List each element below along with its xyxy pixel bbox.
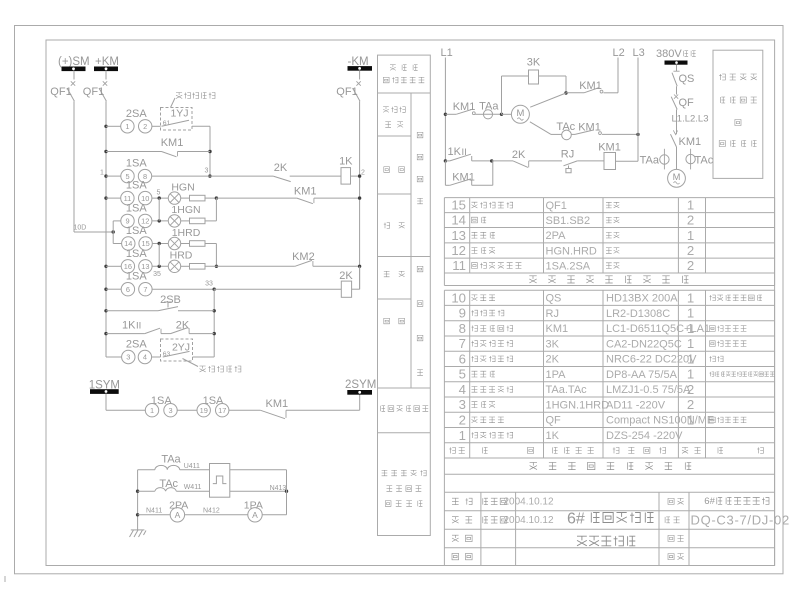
svg-text:5: 5 bbox=[459, 367, 466, 382]
svg-text:9: 9 bbox=[459, 306, 466, 321]
svg-text:2: 2 bbox=[143, 122, 147, 131]
resistor HRD series bbox=[181, 265, 190, 267]
wire 1PA to right rail bbox=[262, 514, 286, 516]
motor M feeder bbox=[668, 169, 686, 187]
svg-text:2004.10.12: 2004.10.12 bbox=[504, 497, 554, 508]
table upper equipment grid bbox=[444, 197, 774, 199]
bus +KM bar bbox=[95, 67, 118, 71]
wire 1HGN loop up to row D bbox=[205, 220, 216, 222]
strip cell closing circuit vertical bbox=[417, 132, 423, 138]
wire between 1SA pairs bbox=[177, 409, 197, 411]
svg-text:2004.10.12: 2004.10.12 bbox=[504, 515, 554, 526]
wire aux mini rail bbox=[213, 289, 215, 357]
wire row H left bbox=[106, 288, 121, 290]
svg-text:L1: L1 bbox=[441, 47, 453, 59]
svg-text:1K: 1K bbox=[546, 430, 560, 442]
svg-text:TAa: TAa bbox=[161, 453, 181, 465]
wire KM2 to right rail bbox=[313, 265, 360, 267]
contact KM1 feeder bbox=[671, 134, 677, 147]
node rail row C bbox=[104, 174, 107, 177]
wire row E from bracket bbox=[113, 220, 121, 222]
node 5 bbox=[158, 196, 161, 199]
wire to lamp 1HRD bbox=[152, 243, 168, 245]
svg-text:6: 6 bbox=[459, 352, 466, 367]
inner drawing border frame bbox=[46, 40, 775, 566]
title block grid bbox=[444, 491, 774, 493]
svg-text:1SA: 1SA bbox=[126, 180, 147, 192]
bus -KM bar bbox=[348, 67, 372, 71]
wire feeder L1L2L3 bbox=[676, 110, 678, 135]
wire to KM2 contact bbox=[205, 265, 295, 267]
svg-text:KM1: KM1 bbox=[578, 121, 601, 133]
svg-text:16: 16 bbox=[124, 262, 132, 271]
svg-text:2PA: 2PA bbox=[546, 230, 567, 242]
wire lamp pair vertical F-G bbox=[158, 244, 160, 267]
svg-text:DZS-254 -220V: DZS-254 -220V bbox=[606, 430, 683, 442]
wire row U411 bbox=[138, 469, 155, 471]
wire transducer out U-phase bbox=[230, 469, 287, 471]
wire to motor M bbox=[502, 113, 512, 115]
svg-text:2SYM: 2SYM bbox=[345, 379, 376, 391]
svg-text:II: II bbox=[136, 321, 141, 332]
node lamp loop D bbox=[215, 196, 218, 199]
wire 1HRD loop down to row G bbox=[205, 243, 216, 245]
wire to node 33 bbox=[152, 288, 214, 290]
svg-text:NRC6-22 DC220V: NRC6-22 DC220V bbox=[606, 354, 697, 366]
svg-text:6#: 6# bbox=[704, 496, 715, 507]
wire node 33 to 2K coil bbox=[214, 288, 341, 290]
svg-text:17: 17 bbox=[218, 406, 226, 415]
svg-text:L2: L2 bbox=[613, 47, 625, 59]
svg-text:1SA: 1SA bbox=[126, 248, 147, 260]
wire L3 vertical bbox=[637, 58, 639, 162]
svg-text:3: 3 bbox=[126, 353, 130, 362]
svg-text:1: 1 bbox=[150, 406, 154, 415]
svg-text:2: 2 bbox=[687, 243, 694, 258]
node CT rail TAc bbox=[136, 490, 139, 493]
wire lamp bracket vertical bbox=[112, 221, 114, 244]
svg-text:6#: 6# bbox=[567, 511, 585, 528]
title block review row bbox=[452, 535, 459, 541]
node L3 junction bbox=[636, 133, 639, 136]
svg-text:1: 1 bbox=[687, 228, 694, 243]
node rail row B bbox=[104, 150, 107, 153]
svg-text:N411: N411 bbox=[146, 508, 162, 515]
wire 1SA-8 to node 3 bbox=[151, 175, 210, 177]
svg-text:2: 2 bbox=[361, 169, 365, 176]
wire L1 vertical bbox=[444, 58, 446, 161]
wire 2YJ to mini rail bbox=[193, 356, 215, 358]
wire (+)SM rail down to 10D branch bbox=[73, 101, 75, 232]
wire resistor to loop node bbox=[205, 197, 216, 199]
breaker QF1 on -KM rail bbox=[359, 70, 361, 79]
svg-text:N413: N413 bbox=[270, 485, 287, 492]
svg-text:1: 1 bbox=[459, 428, 466, 443]
svg-text:1PA: 1PA bbox=[546, 369, 567, 381]
svg-text:2K: 2K bbox=[339, 270, 353, 282]
strip cell red lamp bbox=[384, 271, 390, 277]
svg-text:13: 13 bbox=[141, 262, 149, 271]
function strip frame bbox=[378, 55, 431, 535]
svg-text:TAc: TAc bbox=[695, 154, 714, 166]
svg-text:19: 19 bbox=[200, 406, 208, 415]
wire TAc row bbox=[551, 133, 562, 135]
strip cell accident sound circuit bbox=[381, 406, 386, 412]
wire motor lower diagonal bbox=[530, 122, 551, 135]
resistor 1HRD series bbox=[181, 243, 190, 245]
feeder arrow bbox=[673, 130, 677, 134]
svg-text:8: 8 bbox=[459, 321, 466, 336]
wire motor branch row bbox=[445, 113, 456, 115]
breaker QF1 on +KM rail bbox=[105, 71, 107, 80]
svg-text:1: 1 bbox=[687, 367, 694, 382]
node junction 10D to lamp bracket bbox=[112, 230, 115, 233]
svg-text:1: 1 bbox=[125, 122, 129, 131]
svg-text:1: 1 bbox=[687, 290, 694, 305]
label high oil pressure contact with leader bbox=[183, 359, 199, 367]
node motor upper diagonal bbox=[564, 91, 567, 94]
wire row D left bbox=[106, 197, 121, 199]
svg-text:SB1.SB2: SB1.SB2 bbox=[546, 215, 591, 227]
svg-text:QS: QS bbox=[546, 293, 562, 305]
svg-text:QF1: QF1 bbox=[336, 86, 357, 98]
strip cell CT secondary circuit bbox=[382, 470, 388, 476]
svg-text:1SA: 1SA bbox=[126, 271, 147, 283]
node rail row G bbox=[104, 265, 107, 268]
svg-text:A: A bbox=[252, 510, 258, 520]
svg-text:RJ: RJ bbox=[546, 308, 559, 320]
svg-text:KM1: KM1 bbox=[294, 186, 317, 198]
node rail row H bbox=[104, 288, 107, 291]
svg-text:QF1: QF1 bbox=[546, 200, 567, 212]
breaker QF1 on (+)SM rail bbox=[73, 71, 75, 80]
svg-text:3: 3 bbox=[205, 168, 209, 175]
svg-text:DQ-C3-7/DJ-02: DQ-C3-7/DJ-02 bbox=[691, 512, 790, 527]
title block design row bbox=[452, 498, 459, 504]
svg-text:+KM: +KM bbox=[95, 56, 119, 68]
svg-text:U411: U411 bbox=[184, 463, 200, 470]
node CT rail meters bbox=[136, 513, 139, 516]
svg-text:Compact NS100N/ME: Compact NS100N/ME bbox=[606, 415, 714, 427]
wire to node 5 bbox=[152, 197, 169, 199]
title block check row bbox=[452, 517, 459, 523]
svg-text:1SA: 1SA bbox=[126, 225, 147, 237]
svg-text:KM1: KM1 bbox=[265, 398, 288, 410]
resistor HGN series bbox=[181, 197, 190, 199]
svg-text:6: 6 bbox=[126, 285, 130, 294]
svg-text:1: 1 bbox=[100, 169, 104, 176]
strip cell close bbox=[384, 167, 390, 173]
relay contact 2YJ high-oil-pressure (dashed box) bbox=[161, 339, 193, 361]
wire 1K coil to right rail bbox=[351, 175, 360, 177]
svg-text:1SA.2SA: 1SA.2SA bbox=[546, 260, 591, 272]
strip cell low oil pressure interlock bbox=[383, 107, 389, 113]
wire alarm row right bbox=[286, 409, 360, 411]
wire row C left bbox=[106, 175, 121, 177]
svg-text:DP8-AA 75/5A: DP8-AA 75/5A bbox=[606, 369, 678, 381]
svg-text:N412: N412 bbox=[203, 508, 220, 515]
node 2 bbox=[358, 174, 361, 177]
svg-text:2: 2 bbox=[687, 397, 694, 412]
svg-text:2K: 2K bbox=[274, 162, 288, 174]
wire 2SA to 1YJ bbox=[152, 125, 161, 127]
svg-text:3K: 3K bbox=[546, 338, 560, 350]
svg-text:1: 1 bbox=[687, 352, 694, 367]
node rail row I bbox=[104, 309, 107, 312]
node parallel KM1 branch bbox=[490, 159, 493, 162]
svg-text:LC1-D6511Q5C+LA1-: LC1-D6511Q5C+LA1- bbox=[606, 323, 714, 335]
wire transducer out W-phase to N413 bbox=[230, 490, 287, 492]
wire row I left bbox=[106, 310, 158, 312]
svg-text:7: 7 bbox=[143, 285, 147, 294]
bus 380V bar bbox=[665, 61, 687, 64]
svg-text:12: 12 bbox=[451, 243, 466, 258]
svg-text:2SA: 2SA bbox=[126, 339, 147, 351]
wire L2 vertical bbox=[617, 58, 619, 93]
wire 2K coil to right rail bbox=[352, 288, 360, 290]
svg-text:4: 4 bbox=[143, 353, 147, 362]
ground symbol bbox=[131, 529, 145, 531]
svg-text:HD13BX 200A: HD13BX 200A bbox=[606, 293, 678, 305]
svg-text:1HGN.1HRD: 1HGN.1HRD bbox=[546, 399, 610, 411]
node right rail row G bbox=[358, 265, 361, 268]
wire between contacts bbox=[161, 333, 171, 335]
bus 1SYM bar bbox=[91, 390, 119, 394]
wire +KM main rail bbox=[105, 101, 107, 357]
svg-text:QS: QS bbox=[679, 73, 695, 85]
wire lamp pair vertical D-E bbox=[158, 198, 160, 221]
svg-text:33: 33 bbox=[205, 281, 213, 288]
node 35 bbox=[158, 265, 161, 268]
wire node 3 to 2K contact bbox=[210, 175, 273, 177]
svg-text:QF1: QF1 bbox=[83, 86, 104, 98]
svg-text:1: 1 bbox=[687, 336, 694, 351]
svg-text:10D: 10D bbox=[74, 225, 87, 232]
svg-text:HGN.HRD: HGN.HRD bbox=[546, 245, 597, 257]
svg-text:CA2-DN22Q5C: CA2-DN22Q5C bbox=[606, 338, 682, 350]
node 3K branch bbox=[500, 113, 503, 116]
wire 10D horizontal bbox=[74, 231, 113, 233]
strip cell trip bbox=[384, 318, 390, 324]
svg-text:1SA: 1SA bbox=[126, 158, 147, 170]
wire row I right bbox=[178, 310, 214, 312]
svg-text:KM1: KM1 bbox=[598, 142, 621, 154]
svg-text:TAa.TAc: TAa.TAc bbox=[546, 384, 588, 396]
table1 title control panel equipment list bbox=[529, 276, 536, 283]
svg-text:2: 2 bbox=[459, 413, 466, 428]
svg-text:TAa: TAa bbox=[479, 100, 499, 112]
breaker QF feeder bbox=[674, 95, 678, 99]
svg-text:TAc: TAc bbox=[556, 121, 575, 133]
bus (+)SM bar bbox=[62, 67, 85, 71]
drawing number row bbox=[665, 517, 670, 523]
svg-text:1: 1 bbox=[687, 413, 694, 428]
svg-text:(+)SM: (+)SM bbox=[58, 56, 90, 68]
svg-text:1K: 1K bbox=[339, 156, 353, 168]
svg-text:QF1: QF1 bbox=[50, 86, 71, 98]
svg-text:A: A bbox=[175, 510, 181, 520]
wire row J left bbox=[106, 333, 145, 335]
node loop F bbox=[158, 242, 161, 245]
wire row J right bbox=[189, 333, 214, 335]
node L1 motor branch bbox=[444, 113, 447, 116]
node rail row D bbox=[104, 196, 107, 199]
wire row W411 bbox=[138, 490, 155, 492]
svg-text:7: 7 bbox=[459, 336, 466, 351]
label low oil pressure contact with leader bbox=[171, 98, 176, 108]
table2 title switchboard equipment list bbox=[530, 462, 537, 469]
resistor 1HGN series bbox=[181, 220, 190, 222]
wire -KM right rail bbox=[359, 101, 361, 289]
table2 header row bbox=[449, 447, 455, 453]
transducer box with pulse symbol bbox=[210, 464, 230, 498]
motor M oil pump bbox=[511, 105, 529, 123]
svg-text:14: 14 bbox=[451, 213, 466, 228]
wire row G left bbox=[106, 265, 121, 267]
svg-text:5: 5 bbox=[157, 190, 161, 197]
svg-text:1: 1 bbox=[687, 306, 694, 321]
node right rail row D bbox=[358, 196, 361, 199]
svg-text:LR2-D1308C: LR2-D1308C bbox=[606, 308, 670, 320]
strip cell green lamp bbox=[384, 223, 390, 229]
wire to lamp HRD bbox=[152, 265, 169, 267]
svg-text:3: 3 bbox=[168, 406, 172, 415]
wire feeder to motor bbox=[676, 147, 678, 169]
wire to KM1 contact row D bbox=[216, 197, 297, 199]
svg-text:2SA: 2SA bbox=[126, 108, 147, 120]
svg-text:11: 11 bbox=[452, 258, 466, 273]
svg-text:1K: 1K bbox=[448, 146, 462, 158]
svg-text:M: M bbox=[516, 108, 524, 119]
bus 2SYM bar bbox=[348, 391, 372, 395]
page number row bbox=[668, 535, 674, 541]
svg-text:1YJ: 1YJ bbox=[170, 108, 188, 120]
svg-text:13: 13 bbox=[451, 228, 466, 243]
svg-text:2K: 2K bbox=[512, 149, 526, 161]
svg-text:M: M bbox=[673, 172, 681, 182]
svg-text:3K: 3K bbox=[527, 57, 541, 69]
wire to KM1 contact alarm bbox=[229, 409, 261, 411]
svg-text:2: 2 bbox=[687, 382, 694, 397]
svg-text:2: 2 bbox=[687, 213, 694, 228]
node 33 bbox=[213, 288, 216, 291]
wire to lamp 1HGN bbox=[152, 220, 169, 222]
wire KM1 coil to L3 bbox=[616, 160, 639, 162]
wire 1SYM down bbox=[105, 393, 107, 410]
svg-text:L3: L3 bbox=[633, 47, 645, 59]
wire 3K to KM1 upper bbox=[539, 75, 567, 77]
svg-text:W411: W411 bbox=[184, 484, 202, 491]
svg-text:LMZJ1-0.5 75/5A: LMZJ1-0.5 75/5A bbox=[606, 384, 691, 396]
switch QS knife bbox=[676, 64, 678, 71]
svg-text:4: 4 bbox=[459, 382, 466, 397]
svg-text:1SA: 1SA bbox=[126, 202, 147, 214]
wire mid rail vertical bbox=[209, 126, 211, 176]
strip cell tripping circuit vertical bbox=[417, 266, 423, 272]
svg-text:KM1: KM1 bbox=[679, 136, 702, 148]
relay contact 1YJ low-oil-pressure (dashed box) bbox=[161, 108, 193, 131]
svg-text:2SB: 2SB bbox=[160, 294, 181, 306]
node loop G bbox=[215, 265, 218, 268]
wire CT left rail bbox=[137, 470, 139, 530]
node rail row J bbox=[104, 332, 107, 335]
project row bbox=[668, 498, 674, 504]
svg-text:380V: 380V bbox=[656, 48, 682, 60]
wire 2SA to 2YJ bbox=[151, 356, 160, 358]
svg-text:KM1: KM1 bbox=[161, 137, 184, 149]
node L1 control branch bbox=[444, 159, 447, 162]
wire 1YJ to mid rail bbox=[192, 125, 210, 127]
svg-text:1: 1 bbox=[687, 198, 694, 213]
svg-text:1: 1 bbox=[687, 321, 694, 336]
wire 2K to 1K coil bbox=[290, 175, 341, 177]
wire row B left bbox=[106, 151, 162, 153]
wire 3K branch up bbox=[501, 76, 503, 114]
svg-text:KM1: KM1 bbox=[453, 101, 476, 113]
page count row bbox=[668, 554, 674, 560]
node rail +KM row A bbox=[104, 125, 107, 128]
svg-text:RJ: RJ bbox=[561, 149, 574, 161]
svg-text:KM1: KM1 bbox=[546, 323, 569, 335]
table lower equipment grid bbox=[444, 289, 774, 291]
wire motor upper diagonal bbox=[530, 93, 566, 107]
wire KM1 to right rail row D bbox=[314, 197, 360, 199]
svg-text:AD11 -220V: AD11 -220V bbox=[606, 399, 666, 411]
wire row F from bracket bbox=[113, 243, 122, 245]
wire row K left bbox=[106, 356, 122, 358]
edge centering tick bottom-left bbox=[4, 576, 6, 582]
svg-text:35: 35 bbox=[153, 271, 161, 278]
svg-text:15: 15 bbox=[451, 198, 466, 213]
svg-text:QF: QF bbox=[546, 415, 562, 427]
svg-text:TAa: TAa bbox=[640, 154, 660, 166]
title block supervisor row bbox=[452, 553, 459, 559]
svg-text:1K: 1K bbox=[122, 320, 136, 332]
wire 2SYM up bbox=[359, 394, 361, 410]
wire row B right bbox=[178, 151, 211, 153]
svg-text:2: 2 bbox=[687, 258, 694, 273]
wire 2PA to 1PA bbox=[185, 514, 248, 516]
wire meter row bbox=[138, 514, 171, 516]
svg-text:10: 10 bbox=[451, 290, 466, 305]
strip cell small bus and air switch bbox=[390, 65, 396, 71]
wire CT right rail bbox=[286, 470, 288, 515]
svg-text:2K: 2K bbox=[546, 354, 560, 366]
wire KM1 parallel branch bbox=[444, 161, 446, 185]
svg-text:QF: QF bbox=[679, 97, 695, 109]
box AC control protection note bbox=[713, 50, 763, 178]
svg-text:3: 3 bbox=[459, 397, 466, 412]
wire row A left bbox=[106, 125, 121, 127]
svg-text:L1.L2.L3: L1.L2.L3 bbox=[672, 114, 709, 125]
node loop E bbox=[158, 219, 161, 222]
node N413 bbox=[285, 490, 288, 493]
